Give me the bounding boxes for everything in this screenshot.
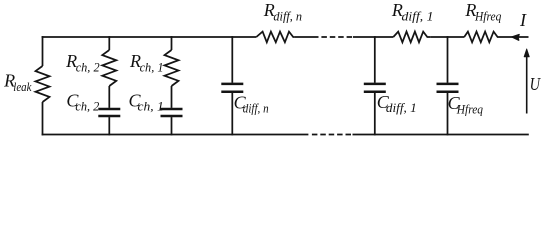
- resistor R_leak: [36, 66, 50, 102]
- wire: branch 4 bottom stub: [231, 93, 233, 136]
- wire: top rail dashed continuation: [313, 36, 353, 38]
- current arrowhead I (points left): [512, 35, 519, 41]
- svg-text:ch, 1: ch, 1: [140, 60, 164, 74]
- wire: branch 2 bottom stub: [108, 117, 110, 135]
- wire: top rail between R_diff,n and dashed break: [295, 36, 313, 38]
- voltage arrowhead U (points up): [524, 49, 529, 57]
- svg-text:ch, 2: ch, 2: [75, 100, 99, 114]
- label R_diff,1: [391, 0, 434, 23]
- label C_ch,2: [66, 91, 99, 114]
- label C_ch,1: [129, 91, 164, 114]
- wire: left branch top stub: [42, 36, 44, 66]
- svg-text:Hfreq: Hfreq: [474, 9, 501, 23]
- label C_diff,n: [234, 92, 269, 115]
- wire: bottom rail dashed continuation: [312, 134, 353, 136]
- resistor R_ch,1: [165, 50, 179, 86]
- svg-text:ch, 2: ch, 2: [76, 60, 100, 74]
- wire: branch 6 top stub: [447, 36, 449, 83]
- svg-text:diff, n: diff, n: [243, 102, 269, 116]
- wire: U voltage arrow shaft: [526, 56, 528, 114]
- capacitor C_Hfreq: [437, 84, 459, 92]
- label C_diff,1: [377, 92, 417, 115]
- wire: bottom rail right section: [353, 134, 529, 136]
- wire: top rail between R_diff,1 and R_Hfreq: [431, 36, 465, 38]
- resistor R_diff,n: [256, 32, 294, 43]
- label U: [530, 74, 541, 94]
- capacitor C_ch,2: [98, 109, 120, 116]
- wire: bottom rail left section: [42, 134, 309, 136]
- wire: top rail left section: [42, 36, 257, 38]
- label R_ch,1: [129, 51, 164, 74]
- resistor R_Hfreq: [464, 32, 501, 43]
- resistor R_ch,2: [102, 50, 116, 86]
- wire: branch 2 middle stub: [108, 86, 110, 108]
- svg-text:U: U: [530, 74, 541, 94]
- label R_leak: [3, 71, 32, 94]
- capacitor C_diff,1: [364, 84, 386, 92]
- wire: branch 5 bottom stub: [374, 93, 376, 136]
- svg-text:diff, 1: diff, 1: [402, 9, 434, 23]
- svg-text:ch, 1: ch, 1: [138, 100, 164, 114]
- label R_diff,n: [263, 0, 302, 23]
- wire: top rail right of R_Hfreq to terminal: [501, 36, 529, 38]
- wire: top rail from dashed break to R_diff,1: [353, 36, 393, 38]
- resistor R_diff,1: [393, 32, 431, 43]
- label I: [519, 10, 527, 30]
- wire: branch 3 top stub: [171, 36, 173, 50]
- capacitor C_ch,1: [161, 109, 183, 116]
- wire: branch 6 bottom stub: [447, 93, 449, 136]
- svg-text:leak: leak: [13, 80, 32, 94]
- wire: branch 4 top stub: [231, 36, 233, 83]
- label C_Hfreq: [448, 93, 483, 116]
- capacitor C_diff,n: [221, 84, 243, 92]
- svg-text:diff, n: diff, n: [273, 9, 302, 23]
- svg-text:diff, 1: diff, 1: [386, 101, 417, 115]
- svg-text:I: I: [519, 10, 527, 30]
- wire: left branch bottom stub: [42, 102, 44, 135]
- wire: branch 2 top stub: [108, 36, 110, 50]
- label R_ch,2: [65, 51, 100, 74]
- svg-text:Hfreq: Hfreq: [456, 102, 483, 116]
- wire: branch 5 top stub: [374, 36, 376, 83]
- wire: branch 3 bottom stub: [171, 117, 173, 135]
- wire: branch 3 middle stub: [171, 86, 173, 108]
- label R_Hfreq: [464, 0, 501, 23]
